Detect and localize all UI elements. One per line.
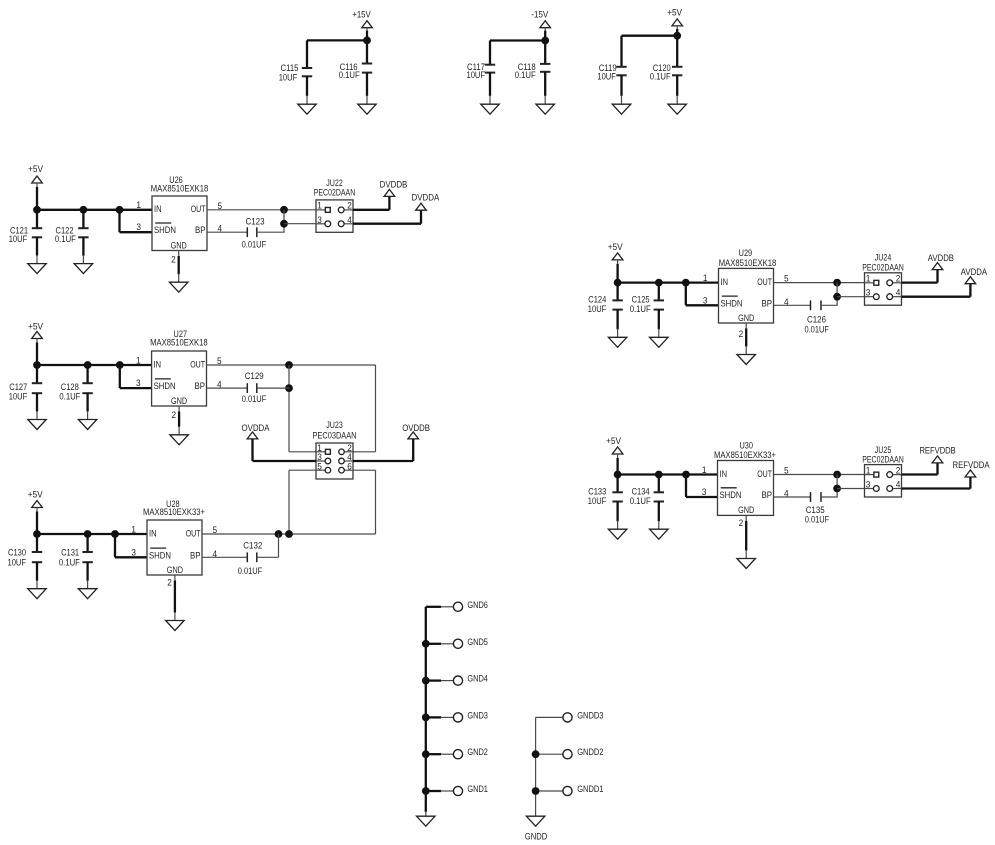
svg-text:IN: IN bbox=[149, 528, 157, 538]
svg-text:6: 6 bbox=[347, 461, 352, 471]
svg-text:JU23: JU23 bbox=[326, 420, 343, 430]
svg-text:1: 1 bbox=[866, 465, 871, 475]
svg-text:OUT: OUT bbox=[191, 204, 206, 214]
svg-text:10UF: 10UF bbox=[8, 557, 27, 567]
svg-text:GND5: GND5 bbox=[467, 637, 488, 647]
svg-text:JU24: JU24 bbox=[875, 253, 892, 263]
svg-text:0.1UF: 0.1UF bbox=[339, 70, 360, 80]
svg-text:3: 3 bbox=[866, 480, 871, 490]
svg-text:0.01UF: 0.01UF bbox=[238, 566, 263, 576]
svg-text:0.1UF: 0.1UF bbox=[515, 70, 536, 80]
svg-text:2: 2 bbox=[739, 329, 744, 339]
svg-text:+5V: +5V bbox=[28, 164, 43, 174]
svg-text:10UF: 10UF bbox=[279, 72, 298, 82]
svg-text:SHDN: SHDN bbox=[149, 550, 171, 560]
svg-text:OUT: OUT bbox=[757, 277, 772, 287]
svg-text:3: 3 bbox=[136, 378, 141, 388]
svg-text:IN: IN bbox=[721, 277, 729, 287]
svg-text:C127: C127 bbox=[9, 382, 27, 392]
svg-text:C134: C134 bbox=[632, 486, 650, 496]
svg-text:3: 3 bbox=[702, 487, 707, 497]
svg-text:2: 2 bbox=[172, 410, 177, 420]
svg-text:C135: C135 bbox=[806, 505, 825, 515]
svg-text:MAX8510EXK18: MAX8510EXK18 bbox=[150, 338, 208, 348]
svg-text:GNDD1: GNDD1 bbox=[577, 784, 603, 794]
svg-text:MAX8510EXK33+: MAX8510EXK33+ bbox=[714, 450, 776, 460]
svg-text:PEC03DAAN: PEC03DAAN bbox=[313, 431, 357, 441]
svg-text:GND: GND bbox=[171, 396, 188, 406]
svg-text:+15V: +15V bbox=[352, 10, 371, 20]
svg-text:10UF: 10UF bbox=[597, 71, 616, 81]
svg-text:0.01UF: 0.01UF bbox=[242, 394, 267, 404]
svg-text:1: 1 bbox=[136, 200, 141, 210]
svg-text:0.1UF: 0.1UF bbox=[55, 234, 76, 244]
svg-text:IN: IN bbox=[720, 469, 728, 479]
svg-text:OVDDB: OVDDB bbox=[402, 423, 430, 433]
svg-text:+5V: +5V bbox=[667, 8, 682, 18]
svg-text:OVDDA: OVDDA bbox=[242, 423, 270, 433]
svg-text:10UF: 10UF bbox=[588, 304, 607, 314]
svg-text:BP: BP bbox=[762, 298, 773, 308]
svg-text:-15V: -15V bbox=[531, 9, 548, 19]
svg-text:10UF: 10UF bbox=[9, 391, 28, 401]
svg-text:MAX8510EXK18: MAX8510EXK18 bbox=[719, 258, 777, 268]
svg-text:C133: C133 bbox=[588, 486, 606, 496]
svg-text:PEC02DAAN: PEC02DAAN bbox=[862, 454, 904, 464]
svg-text:C130: C130 bbox=[8, 547, 26, 557]
svg-text:0.01UF: 0.01UF bbox=[805, 515, 830, 525]
svg-text:GNDD2: GNDD2 bbox=[577, 747, 603, 757]
svg-text:JU25: JU25 bbox=[875, 445, 892, 455]
svg-text:2: 2 bbox=[739, 518, 744, 528]
svg-text:+5V: +5V bbox=[28, 490, 43, 500]
svg-text:MAX8510EXK18: MAX8510EXK18 bbox=[151, 184, 209, 194]
svg-text:AVDDA: AVDDA bbox=[961, 267, 987, 277]
svg-text:MAX8510EXK33+: MAX8510EXK33+ bbox=[143, 507, 205, 517]
svg-text:3: 3 bbox=[703, 295, 708, 305]
svg-text:BP: BP bbox=[195, 225, 206, 235]
svg-text:GND: GND bbox=[738, 505, 755, 515]
svg-text:PEC02DAAN: PEC02DAAN bbox=[314, 188, 356, 198]
svg-text:3: 3 bbox=[317, 215, 322, 225]
svg-text:10UF: 10UF bbox=[9, 234, 28, 244]
svg-text:+5V: +5V bbox=[28, 322, 43, 332]
svg-text:GND3: GND3 bbox=[467, 710, 488, 720]
svg-text:1: 1 bbox=[866, 274, 871, 284]
svg-text:C126: C126 bbox=[807, 315, 826, 325]
svg-text:OUT: OUT bbox=[186, 528, 201, 538]
svg-text:10UF: 10UF bbox=[588, 496, 607, 506]
svg-text:4: 4 bbox=[347, 215, 352, 225]
svg-text:+5V: +5V bbox=[606, 436, 621, 446]
svg-text:0.1UF: 0.1UF bbox=[59, 391, 80, 401]
svg-text:0.01UF: 0.01UF bbox=[804, 325, 829, 335]
svg-text:3: 3 bbox=[866, 288, 871, 298]
svg-text:GND4: GND4 bbox=[467, 674, 488, 684]
svg-text:SHDN: SHDN bbox=[154, 381, 176, 391]
svg-text:REFVDDB: REFVDDB bbox=[919, 446, 955, 456]
svg-text:3: 3 bbox=[131, 547, 136, 557]
svg-text:GNDD: GNDD bbox=[525, 831, 548, 841]
svg-text:C131: C131 bbox=[61, 547, 79, 557]
svg-text:SHDN: SHDN bbox=[720, 490, 742, 500]
svg-text:GND: GND bbox=[171, 240, 188, 250]
svg-text:4: 4 bbox=[896, 288, 901, 298]
svg-text:2: 2 bbox=[896, 274, 901, 284]
svg-text:SHDN: SHDN bbox=[721, 298, 743, 308]
svg-text:C132: C132 bbox=[243, 541, 262, 551]
svg-text:C123: C123 bbox=[246, 216, 265, 226]
svg-text:2: 2 bbox=[167, 577, 172, 587]
svg-text:2: 2 bbox=[347, 201, 352, 211]
svg-text:GND6: GND6 bbox=[467, 600, 488, 610]
svg-text:1: 1 bbox=[136, 355, 141, 365]
svg-text:BP: BP bbox=[195, 381, 206, 391]
svg-text:10UF: 10UF bbox=[467, 70, 486, 80]
svg-text:OUT: OUT bbox=[757, 469, 772, 479]
svg-text:0.1UF: 0.1UF bbox=[59, 557, 80, 567]
svg-text:IN: IN bbox=[154, 359, 162, 369]
svg-text:OUT: OUT bbox=[190, 359, 205, 369]
svg-text:IN: IN bbox=[154, 204, 162, 214]
svg-text:BP: BP bbox=[190, 550, 201, 560]
svg-text:GND1: GND1 bbox=[467, 784, 488, 794]
svg-text:DVDDA: DVDDA bbox=[412, 193, 440, 203]
svg-text:GND: GND bbox=[738, 313, 755, 323]
svg-text:AVDDB: AVDDB bbox=[928, 253, 954, 263]
svg-text:C129: C129 bbox=[245, 371, 264, 381]
svg-text:+5V: +5V bbox=[608, 242, 623, 252]
svg-text:0.1UF: 0.1UF bbox=[630, 304, 651, 314]
svg-text:DVDDB: DVDDB bbox=[380, 179, 408, 189]
svg-text:C125: C125 bbox=[632, 295, 650, 305]
svg-text:1: 1 bbox=[131, 524, 136, 534]
svg-text:PEC02DAAN: PEC02DAAN bbox=[862, 263, 904, 273]
svg-text:GND: GND bbox=[167, 565, 184, 575]
svg-text:0.1UF: 0.1UF bbox=[630, 496, 651, 506]
svg-text:C128: C128 bbox=[61, 382, 79, 392]
svg-text:SHDN: SHDN bbox=[154, 225, 176, 235]
svg-text:2: 2 bbox=[896, 465, 901, 475]
svg-text:3: 3 bbox=[136, 222, 141, 232]
svg-text:REFVDDA: REFVDDA bbox=[953, 460, 990, 470]
svg-text:GND2: GND2 bbox=[467, 747, 488, 757]
svg-text:0.1UF: 0.1UF bbox=[650, 71, 671, 81]
svg-text:1: 1 bbox=[317, 201, 322, 211]
svg-text:5: 5 bbox=[317, 461, 322, 471]
svg-text:JU22: JU22 bbox=[326, 178, 343, 188]
svg-text:2: 2 bbox=[171, 255, 176, 265]
svg-text:C124: C124 bbox=[588, 295, 606, 305]
svg-text:U29: U29 bbox=[739, 248, 753, 258]
svg-text:1: 1 bbox=[703, 273, 708, 283]
svg-text:0.01UF: 0.01UF bbox=[242, 240, 267, 250]
svg-text:BP: BP bbox=[762, 490, 773, 500]
svg-text:GNDD3: GNDD3 bbox=[577, 710, 603, 720]
svg-text:1: 1 bbox=[702, 465, 707, 475]
svg-text:4: 4 bbox=[896, 480, 901, 490]
